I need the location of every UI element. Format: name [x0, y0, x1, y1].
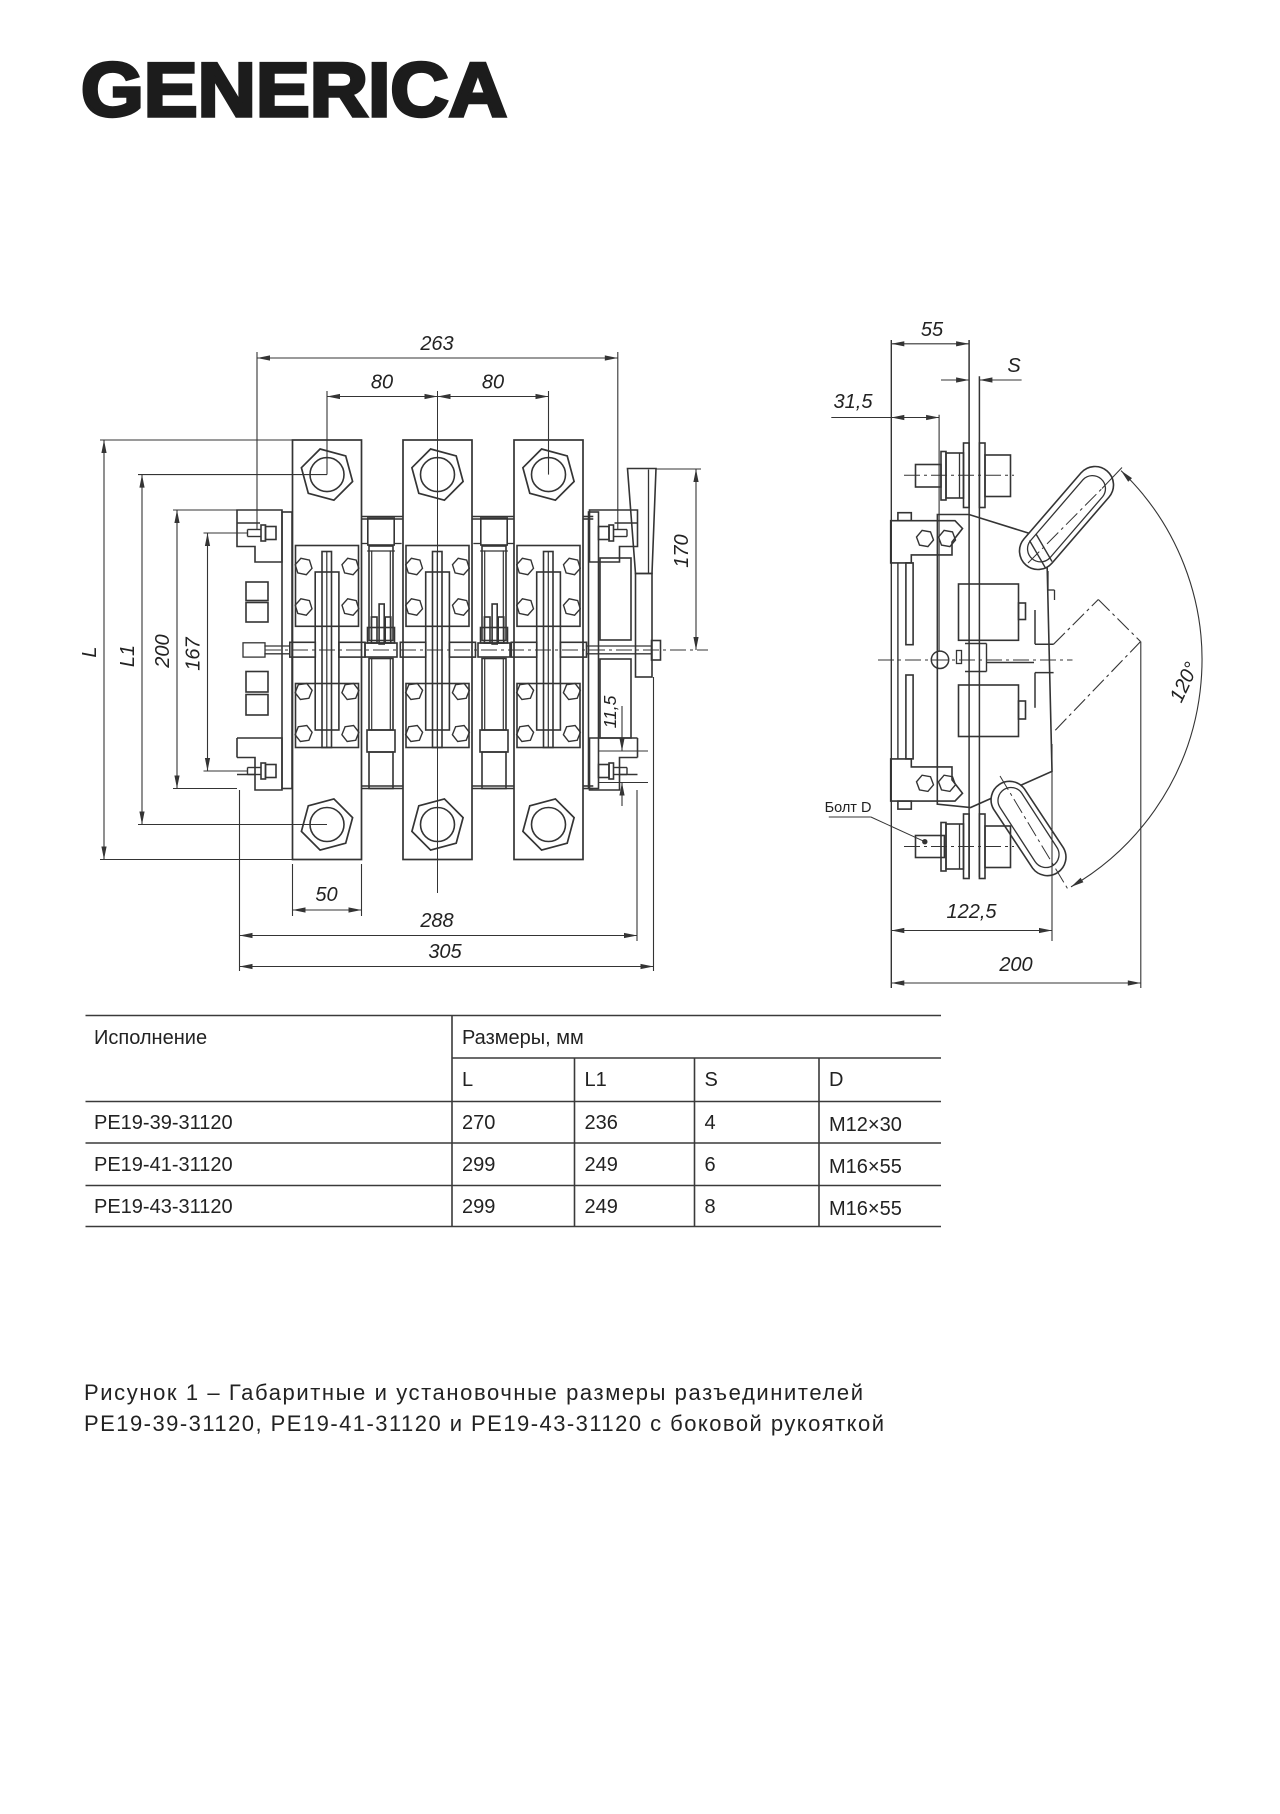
- svg-text:L1: L1: [585, 1069, 607, 1091]
- dimension 263 with extension lines: [256, 352, 258, 530]
- svg-text:305: 305: [428, 941, 462, 963]
- bottom terminal bolt (side view): [916, 836, 945, 858]
- svg-text:8: 8: [705, 1196, 716, 1218]
- lower fuse block: [959, 685, 1019, 737]
- casing steps right of blocks: [1034, 610, 1036, 644]
- bolt heads, pole 3: [517, 558, 534, 574]
- handle boss steps: [1047, 571, 1049, 590]
- shaft crank blocks, pole 3: [511, 642, 537, 657]
- handle neck lines: [1036, 534, 1052, 562]
- inter-phase insulator columns: [368, 518, 394, 545]
- svg-text:Болт D: Болт D: [825, 800, 872, 816]
- right mounting bracket plate: [589, 512, 599, 789]
- dimension 170: [656, 468, 701, 470]
- dimension 11,5: [598, 750, 648, 752]
- svg-text:L1: L1: [117, 645, 139, 667]
- mounting plane line: [890, 340, 892, 988]
- right bracket bottom arm: [590, 738, 638, 790]
- svg-text:D: D: [829, 1069, 843, 1091]
- 120 degree travel arc: [1071, 471, 1202, 887]
- svg-text:122,5: 122,5: [946, 901, 997, 923]
- dimension 167: [204, 532, 248, 534]
- moving contact housing, pole 1: [315, 572, 339, 730]
- handle travel phantom outline: [1054, 600, 1099, 645]
- dimension 200 (side view): [891, 982, 1141, 984]
- svg-text:11,5: 11,5: [600, 695, 620, 728]
- bolt heads, pole 2: [406, 558, 423, 574]
- switch blade (side view, edge-on): [968, 340, 970, 877]
- terminal bar, pole 3: [514, 440, 583, 860]
- svg-text:L: L: [79, 646, 101, 657]
- contact pad plates, pole 2: [406, 546, 469, 627]
- table: dimensions: [86, 1015, 942, 1017]
- dimension 55: [891, 343, 969, 345]
- contact pad plates, pole 3: [517, 546, 580, 627]
- svg-text:Размеры, мм: Размеры, мм: [462, 1027, 584, 1049]
- svg-text:S: S: [705, 1069, 718, 1091]
- moving contact housing, pole 2: [426, 572, 450, 730]
- terminal nut bottom, pole 2: [412, 799, 463, 850]
- dimension 31,5: [831, 417, 939, 419]
- side bracket column: [906, 563, 913, 645]
- dimension 200: [173, 509, 237, 511]
- left mounting bracket plate: [282, 512, 292, 789]
- assembly bottom edge (double line): [362, 785, 404, 787]
- left bracket bottom bolt: [261, 763, 266, 779]
- side bracket bottom arm: [898, 801, 911, 809]
- terminal bar, pole 1: [293, 440, 362, 860]
- svg-text:55: 55: [921, 319, 944, 341]
- left bracket bottom arm: [237, 738, 282, 790]
- dimension L1: [138, 474, 327, 476]
- knife blade, pole 1: [322, 552, 332, 748]
- contact pad plates, pole 1: [296, 546, 359, 627]
- dimension S: [941, 379, 969, 381]
- terminal bar, pole 2: [403, 440, 472, 860]
- svg-text:31,5: 31,5: [834, 391, 874, 413]
- svg-text:6: 6: [705, 1154, 716, 1176]
- axis centerline (side view): [878, 659, 1073, 661]
- shaft clamp mechanisms at insulator columns: [379, 604, 384, 644]
- dimension 80 (right span): [438, 396, 549, 398]
- svg-text:М16×55: М16×55: [829, 1198, 902, 1220]
- left bracket top arm: [237, 510, 282, 562]
- front view: disconnector, three-pole, front projection: [265, 517, 651, 789]
- mounting plate edge (side view): [897, 563, 899, 759]
- svg-text:236: 236: [585, 1112, 618, 1134]
- svg-text:4: 4: [705, 1112, 716, 1134]
- svg-text:249: 249: [585, 1196, 618, 1218]
- pole 2 vertical centerline: [437, 391, 439, 893]
- svg-text:80: 80: [482, 372, 504, 394]
- left bracket mid clips: [246, 582, 268, 601]
- top terminal bolt (side view): [916, 465, 942, 488]
- dimension 80 (left span): [326, 391, 328, 475]
- svg-text:РЕ19-41-31120: РЕ19-41-31120: [94, 1154, 233, 1176]
- right bracket top arm: [590, 510, 638, 562]
- dimension 305: [653, 677, 655, 971]
- left shaft stub: [243, 643, 265, 657]
- line to shaft axis plane (31,5 reference): [938, 415, 940, 652]
- dimension 122,5: [1051, 744, 1053, 941]
- svg-text:80: 80: [371, 372, 393, 394]
- svg-text:РЕ19-39-31120, РЕ19-41-31120 и: РЕ19-39-31120, РЕ19-41-31120 и РЕ19-43-3…: [84, 1411, 884, 1436]
- extension line from phantom corner: [1140, 642, 1142, 989]
- assembly top edge (double line): [362, 516, 404, 518]
- side handle shaft (front view): [636, 574, 653, 678]
- svg-text:263: 263: [419, 333, 453, 355]
- handle in ON position (side view): [1019, 466, 1113, 569]
- side handle grip (front view): [628, 469, 657, 574]
- svg-text:РЕ19-43-31120: РЕ19-43-31120: [94, 1196, 233, 1218]
- svg-text:299: 299: [462, 1154, 495, 1176]
- terminal nut top, pole 2: [412, 449, 463, 500]
- side handle hub (front view): [652, 641, 661, 661]
- knife blade, pole 3: [544, 552, 554, 748]
- shaft crank blocks, pole 1: [290, 642, 316, 657]
- casing center details: [965, 643, 987, 645]
- terminal nut bottom, pole 1: [301, 799, 352, 850]
- svg-text:249: 249: [585, 1154, 618, 1176]
- handle in OFF position (side view): [991, 781, 1066, 875]
- terminal nut top, pole 1: [301, 449, 352, 500]
- bolt heads, pole 1: [295, 558, 312, 574]
- svg-text:167: 167: [183, 636, 205, 670]
- svg-text:50: 50: [315, 884, 337, 906]
- svg-text:200: 200: [998, 954, 1032, 976]
- svg-text:120°: 120°: [1166, 659, 1203, 706]
- terminal nut top, pole 3: [523, 449, 574, 500]
- right bracket top bolt: [609, 525, 614, 541]
- horizontal axis centerline (front view): [265, 649, 708, 651]
- svg-text:М12×30: М12×30: [829, 1114, 902, 1136]
- svg-text:GENERICA: GENERICA: [81, 48, 507, 133]
- svg-text:Рисунок 1 – Габаритные и устан: Рисунок 1 – Габаритные и установочные ра…: [84, 1380, 863, 1405]
- svg-text:270: 270: [462, 1112, 495, 1134]
- main shaft (thin sections): [265, 645, 290, 647]
- dimension 50: [292, 864, 294, 916]
- side bracket top arm: [898, 513, 911, 521]
- svg-text:S: S: [1007, 355, 1021, 377]
- svg-text:М16×55: М16×55: [829, 1156, 902, 1178]
- left bracket top bolt: [261, 525, 266, 541]
- moving contact housing, pole 3: [537, 572, 561, 730]
- right bracket bottom bolt: [609, 763, 614, 779]
- svg-text:РЕ19-39-31120: РЕ19-39-31120: [94, 1112, 233, 1134]
- svg-text:170: 170: [671, 534, 693, 567]
- upper fuse block: [959, 584, 1019, 640]
- terminal nut bottom, pole 3: [523, 799, 574, 850]
- svg-text:288: 288: [419, 910, 453, 932]
- svg-text:200: 200: [152, 634, 174, 668]
- svg-text:L: L: [462, 1069, 473, 1091]
- switch body outline (side view): [937, 515, 1052, 808]
- right bracket mechanism plates: [600, 558, 631, 640]
- svg-text:299: 299: [462, 1196, 495, 1218]
- knife blade, pole 2: [433, 552, 443, 748]
- dimension 288: [239, 790, 241, 971]
- shaft crank blocks, pole 2: [400, 642, 426, 657]
- dimension L: [100, 439, 293, 441]
- svg-text:Исполнение: Исполнение: [94, 1027, 207, 1049]
- shaft circle (side view): [931, 651, 948, 668]
